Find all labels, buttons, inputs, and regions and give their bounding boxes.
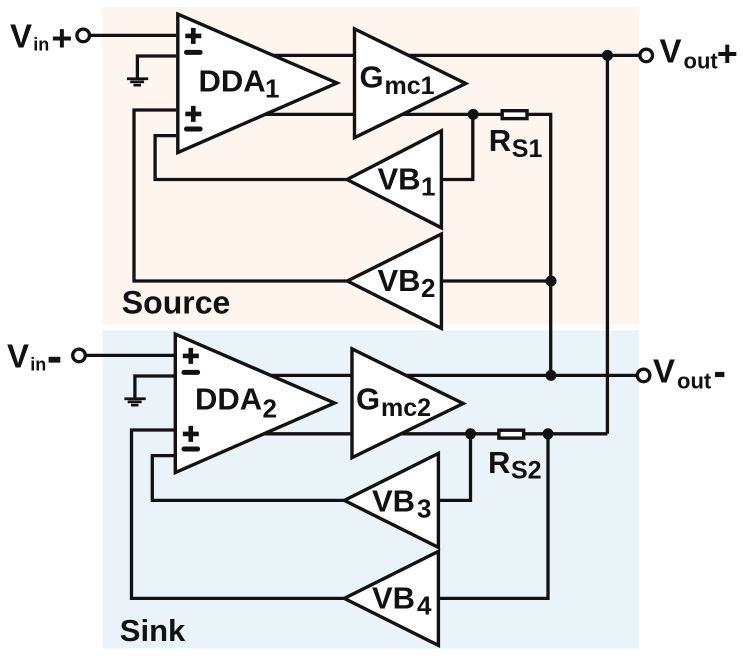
wire DDA1 neg input to ground [137, 56, 176, 78]
svg-text:R: R [489, 123, 511, 158]
svg-text:VB: VB [378, 161, 421, 196]
wire VB3 output up to node E [438, 434, 470, 501]
label Vin- [7, 337, 60, 374]
op-amp DDA2 [175, 334, 334, 472]
buffer VB2 [347, 234, 441, 328]
label Vin+ [10, 17, 72, 58]
DDA2 pin + (upper pair) [183, 348, 199, 364]
wire DDA2 neg input to ground [135, 376, 174, 398]
svg-text:VB: VB [372, 580, 415, 615]
label DDA1 [199, 64, 280, 104]
svg-text:mc2: mc2 [381, 394, 431, 422]
svg-text:S2: S2 [511, 457, 542, 485]
svg-text:Source: Source [122, 285, 230, 321]
resistor R_S1 [502, 111, 527, 119]
label RS1 [489, 123, 543, 163]
wire Vin+ to DDA1 [90, 34, 177, 37]
label VB2 [378, 263, 436, 303]
label Vout+ [660, 33, 738, 74]
wire Vin- to DDA2 [87, 354, 175, 357]
buffer VB4 [344, 551, 438, 645]
DDA1 pin - (upper pair) [187, 50, 201, 55]
DDA1 pin - (lower pair) [187, 127, 201, 132]
amplifier Gmc1 [355, 29, 466, 138]
label VB1 [378, 161, 436, 201]
node C junction (VB2) [546, 276, 557, 287]
svg-text:G: G [356, 382, 380, 417]
terminal Vout+ [640, 49, 653, 62]
ground (sink) [124, 399, 145, 405]
svg-text:S1: S1 [512, 135, 543, 163]
source region background [102, 7, 639, 324]
DDA2 pin - (upper pair) [184, 370, 198, 375]
svg-text:in: in [30, 355, 46, 375]
svg-text:4: 4 [417, 590, 432, 620]
svg-text:3: 3 [417, 494, 431, 524]
svg-text:mc1: mc1 [385, 72, 435, 100]
svg-text:VB: VB [372, 484, 415, 519]
svg-text:R: R [488, 445, 510, 480]
svg-text:out: out [677, 368, 712, 393]
wire main vertical Vout+ to RS2 right [606, 55, 609, 433]
node Vout- junction [546, 370, 557, 381]
label Gmc1 [360, 60, 435, 100]
wire node E: Gmc2 bottom output to RS2 [200, 432, 505, 435]
wire DDA2 lower + input to VB4 apex [132, 430, 347, 598]
svg-text:V: V [653, 352, 675, 389]
resistor R_S2 [499, 430, 524, 438]
buffer VB3 [344, 453, 438, 547]
label RS2 [488, 445, 542, 485]
svg-text:V: V [7, 337, 29, 374]
label VB3 [372, 484, 431, 524]
svg-text:2: 2 [263, 394, 277, 424]
wire DDA2 lower - input to VB3 apex [152, 456, 346, 501]
svg-text:1: 1 [421, 171, 435, 201]
sink region background [102, 330, 639, 648]
buffer VB1 [347, 131, 441, 228]
label DDA2 [195, 382, 277, 424]
svg-text:DDA: DDA [199, 64, 266, 99]
DDA1 pin + (lower pair) [185, 106, 201, 122]
wire node A: Gmc1 top output to Vout+ [200, 54, 641, 57]
svg-text:+: + [717, 33, 738, 74]
node E junction (RS2 left) [465, 428, 476, 439]
DDA2 pin - (lower pair) [184, 447, 198, 452]
terminal Vin- [73, 349, 86, 362]
node RS2 right junction [543, 428, 554, 439]
svg-text:VB: VB [378, 263, 421, 298]
svg-text:Sink: Sink [120, 613, 186, 648]
ground (source) [127, 79, 148, 85]
wire RS1 right down to Vout- line [524, 114, 551, 375]
DDA2 pin + (lower pair) [183, 426, 199, 442]
wire node D: Gmc2 top output to Vout- [200, 374, 638, 377]
svg-text:G: G [360, 60, 384, 95]
wire RS2 right to main vertical [520, 432, 607, 435]
DDA1 pin + (upper pair) [185, 28, 201, 44]
junction dots [465, 50, 613, 439]
wire DDA1 lower - input to VB1 apex [155, 136, 349, 180]
wire VB4 output up to RS2 right node [438, 434, 548, 599]
label Gmc2 [356, 382, 431, 422]
op-amp DDA1 [178, 14, 337, 152]
svg-text:DDA: DDA [195, 382, 262, 417]
node B junction [468, 109, 479, 120]
label VB4 [372, 580, 432, 620]
svg-text:in: in [33, 35, 49, 55]
svg-text:1: 1 [265, 74, 279, 104]
amplifier Gmc2 [352, 349, 463, 458]
terminal Vin+ [77, 29, 90, 42]
svg-text:V: V [660, 33, 682, 70]
wire VB1 output up to node B [441, 114, 473, 179]
label Vout- [653, 352, 724, 393]
svg-text:V: V [10, 18, 32, 55]
svg-text:2: 2 [421, 273, 435, 303]
terminal Vout- [637, 369, 650, 382]
wire DDA1 lower + input to VB2 apex [134, 110, 349, 281]
svg-text:+: + [51, 17, 72, 58]
svg-text:out: out [684, 48, 719, 73]
wire VB2 output to node C [441, 279, 551, 282]
wire node B: Gmc1 bottom output to RS1 [200, 113, 505, 116]
node Vout+ junction [602, 50, 613, 61]
